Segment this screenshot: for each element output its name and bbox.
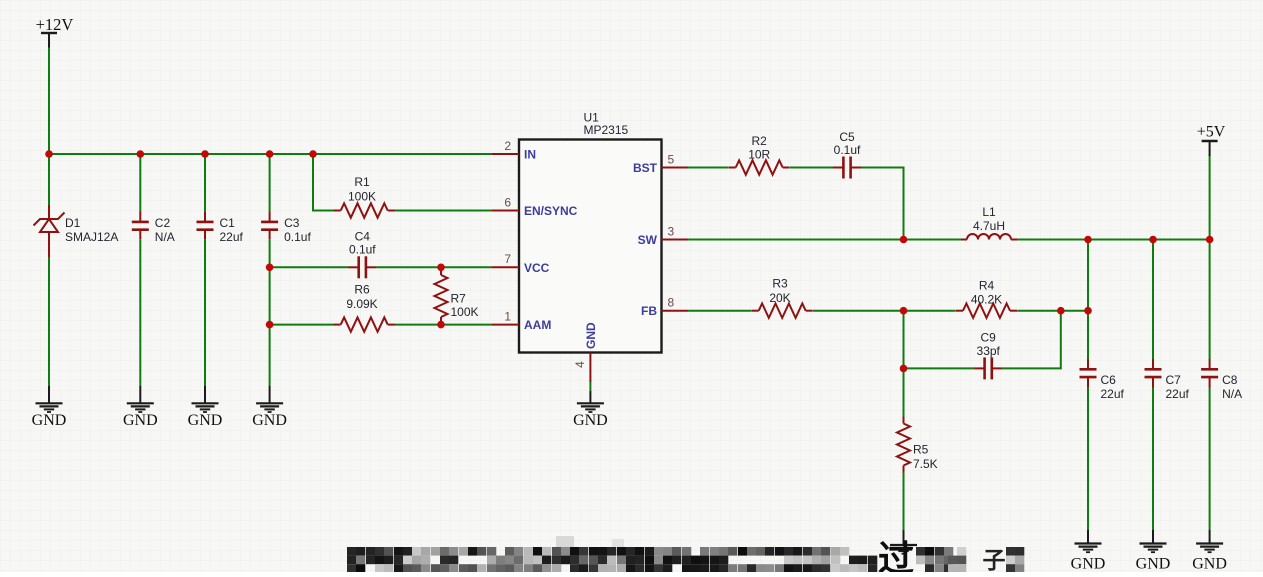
svg-text:C6: C6: [1101, 373, 1117, 387]
wire VCC left: [270, 266, 349, 268]
junction SW/C6: [1084, 236, 1092, 244]
wire C6 branch lower: [1087, 387, 1089, 530]
pin 1 AAM: [492, 310, 519, 325]
svg-text:GND: GND: [584, 322, 598, 349]
svg-text:AAM: AAM: [524, 318, 551, 332]
svg-text:C3: C3: [284, 216, 300, 230]
svg-text:N/A: N/A: [1222, 387, 1242, 401]
label C9: [977, 331, 1001, 359]
ground U1 pin4: [573, 391, 608, 429]
svg-text:R3: R3: [772, 277, 788, 291]
junction at C1/IN: [201, 150, 209, 158]
label U1: [584, 111, 629, 138]
svg-text:0.1uf: 0.1uf: [349, 243, 376, 257]
svg-text:+5V: +5V: [1197, 124, 1226, 141]
svg-text:C2: C2: [155, 216, 171, 230]
svg-text:GND: GND: [1192, 556, 1227, 573]
svg-text:100K: 100K: [451, 305, 479, 319]
junction SW/C7: [1149, 236, 1157, 244]
junction C9 right/FB line: [1057, 307, 1065, 315]
pin 8 FB: [662, 296, 689, 311]
wire BST from pin 5: [688, 167, 729, 169]
wire BST between R2 C5: [790, 167, 833, 169]
label R6: [346, 283, 377, 312]
junction at C3/IN: [266, 150, 274, 158]
svg-text:过: 过: [878, 538, 914, 572]
svg-text:VCC: VCC: [524, 261, 550, 275]
wire BST corner: [861, 168, 904, 240]
svg-text:3: 3: [668, 225, 675, 239]
svg-text:BST: BST: [633, 161, 658, 175]
wire C3 branch upper: [269, 154, 271, 212]
svg-text:C8: C8: [1222, 373, 1238, 387]
resistor R2: [729, 160, 790, 174]
junction at C3/VCC: [266, 264, 274, 272]
label R1: [348, 175, 376, 204]
pin name AAM: [524, 318, 551, 332]
pin 5 BST: [662, 153, 689, 168]
svg-text:GND: GND: [252, 412, 287, 429]
resistor R3: [752, 304, 813, 318]
label R2: [748, 134, 770, 162]
wire C1 branch lower: [204, 240, 206, 386]
ground C1: [188, 386, 223, 429]
capacitor C2: [132, 212, 149, 240]
wire AAM to pin 1: [395, 324, 493, 326]
svg-text:7.5K: 7.5K: [913, 457, 938, 471]
svg-text:100K: 100K: [348, 190, 376, 204]
wire SW from pin 3: [688, 239, 961, 241]
svg-text:GND: GND: [188, 412, 223, 429]
junction C9/FB: [900, 365, 908, 373]
svg-text:R1: R1: [354, 175, 370, 189]
pin name IN: [524, 148, 536, 162]
wire C3/ground branch lower: [269, 240, 271, 386]
wire VCC to pin 7: [376, 266, 492, 268]
capacitor C3: [261, 212, 278, 240]
label C6: [1101, 373, 1125, 401]
wire +5V to SW rail: [1209, 155, 1211, 240]
junction at D1/IN: [45, 150, 53, 158]
svg-text:MP2315: MP2315: [584, 123, 629, 137]
svg-text:+12V: +12V: [36, 15, 74, 34]
svg-text:22uf: 22uf: [1101, 387, 1125, 401]
junction BST/SW: [900, 236, 908, 244]
wire C9 branch right: [1002, 311, 1061, 369]
ground C2: [123, 386, 158, 429]
capacitor C8: [1201, 359, 1218, 387]
label R5: [913, 443, 938, 472]
pin name SW: [638, 233, 658, 247]
pin 7 VCC: [492, 252, 519, 267]
wire EN/SYNC branch: [313, 154, 334, 211]
label D1: [65, 216, 118, 244]
ground R5: [890, 530, 917, 554]
wire AAM left: [270, 324, 334, 326]
svg-text:40.2K: 40.2K: [971, 293, 1002, 307]
junction at R7/VCC: [437, 264, 445, 272]
resistor R5: [897, 417, 910, 473]
svg-text:2: 2: [504, 139, 511, 153]
wire C7 branch upper: [1152, 240, 1154, 360]
svg-text:0.1uf: 0.1uf: [834, 143, 861, 157]
svg-text:10R: 10R: [748, 148, 770, 162]
resistor R6: [334, 317, 395, 331]
capacitor C1: [197, 212, 214, 240]
wire C6 branch upper: [1087, 240, 1089, 360]
wire EN/SYNC to pin 6: [395, 210, 493, 212]
svg-text:GND: GND: [123, 412, 158, 429]
svg-text:L1: L1: [982, 205, 996, 219]
svg-text:SMAJ12A: SMAJ12A: [65, 230, 118, 244]
svg-text:GND: GND: [573, 412, 608, 429]
wire C8 branch upper: [1209, 240, 1211, 360]
resistor R7: [435, 268, 448, 324]
wire FB after R4: [1017, 310, 1088, 312]
pin 4 GND: [573, 353, 590, 383]
svg-text:6: 6: [504, 196, 511, 210]
junction SW/+5V: [1206, 236, 1214, 244]
label C5: [834, 130, 861, 157]
svg-text:4: 4: [573, 361, 587, 368]
label C4: [349, 230, 376, 257]
svg-text:5: 5: [668, 153, 675, 167]
wire C9 branch left: [904, 367, 975, 369]
capacitor C7: [1145, 359, 1162, 387]
pin name EN/SYNC: [524, 204, 578, 218]
wire C2 branch lower: [139, 240, 141, 386]
wire SW after L1: [1017, 239, 1210, 241]
ground C7: [1136, 530, 1171, 573]
svg-text:R4: R4: [979, 279, 995, 293]
junction FB node: [900, 307, 908, 315]
svg-text:R6: R6: [354, 283, 370, 297]
wire C8 branch lower: [1209, 387, 1211, 530]
wire +12V rail upper: [48, 48, 50, 207]
svg-text:20K: 20K: [769, 291, 790, 305]
svg-text:1: 1: [504, 310, 511, 324]
capacitor C6: [1080, 359, 1097, 387]
diode D1: [34, 205, 65, 257]
wire C2 branch upper: [139, 154, 141, 212]
power +12V: [36, 15, 74, 48]
svg-text:IN: IN: [524, 148, 536, 162]
svg-text:GND: GND: [1136, 556, 1171, 573]
svg-text:0.1uf: 0.1uf: [284, 230, 311, 244]
svg-text:GND: GND: [1071, 556, 1106, 573]
label L1: [973, 205, 1005, 233]
wire IC GND pin: [589, 382, 591, 391]
svg-text:4.7uH: 4.7uH: [973, 219, 1005, 233]
power +5V: [1197, 124, 1226, 157]
ground D1: [32, 386, 67, 429]
wire FB/R5 vertical upper: [903, 311, 905, 418]
pin name BST: [633, 161, 658, 175]
op-amp U1 body: [519, 140, 662, 353]
svg-text:EN/SYNC: EN/SYNC: [524, 204, 578, 218]
label C8: [1222, 373, 1242, 401]
svg-text:FB: FB: [641, 304, 657, 318]
label C1: [220, 216, 244, 244]
svg-text:9.09K: 9.09K: [346, 297, 377, 311]
wire +12V rail lower: [48, 256, 50, 386]
junction at R7/AAM: [437, 321, 445, 329]
junction at C3/AAM: [266, 321, 274, 329]
ground C3: [252, 386, 287, 429]
svg-text:D1: D1: [65, 216, 81, 230]
pin name VCC: [524, 261, 550, 275]
pin 6 EN/SYNC: [492, 196, 519, 211]
pin 2 IN: [492, 139, 519, 154]
ground C6: [1071, 530, 1106, 573]
svg-text:SW: SW: [638, 233, 658, 247]
capacitor C5: [833, 157, 861, 179]
label R4: [971, 279, 1002, 307]
label C3: [284, 216, 311, 244]
label C2: [155, 216, 175, 244]
svg-text:R2: R2: [752, 134, 768, 148]
svg-text:R5: R5: [913, 443, 929, 457]
capacitor C4: [348, 256, 376, 278]
svg-text:22uf: 22uf: [220, 230, 244, 244]
wire FB from pin 8: [688, 310, 752, 312]
wire C1 branch upper: [204, 154, 206, 212]
wire C7 branch lower: [1152, 387, 1154, 530]
svg-text:C1: C1: [220, 216, 236, 230]
svg-text:7: 7: [504, 252, 511, 266]
pin name FB: [641, 304, 657, 318]
svg-text:22uf: 22uf: [1166, 387, 1190, 401]
svg-text:C9: C9: [981, 331, 997, 345]
label C7: [1166, 373, 1190, 401]
pin 3 SW: [662, 225, 689, 240]
label R7: [451, 292, 479, 320]
svg-text:C5: C5: [839, 130, 855, 144]
svg-text:子: 子: [983, 547, 1006, 572]
wire IN net horizontal: [49, 153, 492, 155]
junction at EN branch/IN: [309, 150, 317, 158]
svg-text:33pf: 33pf: [977, 344, 1001, 358]
junction FB line/C6 branch: [1084, 307, 1092, 315]
pixelated watermark: [347, 536, 1024, 577]
inductor L1: [961, 234, 1017, 240]
label R3: [769, 277, 790, 306]
svg-text:8: 8: [668, 296, 675, 310]
resistor R1: [334, 203, 395, 217]
capacitor C9: [974, 357, 1002, 379]
ground C8: [1192, 530, 1227, 573]
wire R5 lower: [903, 471, 905, 530]
svg-text:C4: C4: [355, 230, 371, 244]
svg-text:GND: GND: [32, 412, 67, 429]
pin name GND: [584, 322, 598, 349]
svg-text:N/A: N/A: [155, 230, 175, 244]
svg-text:C7: C7: [1166, 373, 1182, 387]
wire FB between R3 R4: [813, 310, 956, 312]
junction at C2/IN: [137, 150, 145, 158]
svg-text:R7: R7: [451, 292, 467, 306]
resistor R4: [956, 304, 1017, 318]
